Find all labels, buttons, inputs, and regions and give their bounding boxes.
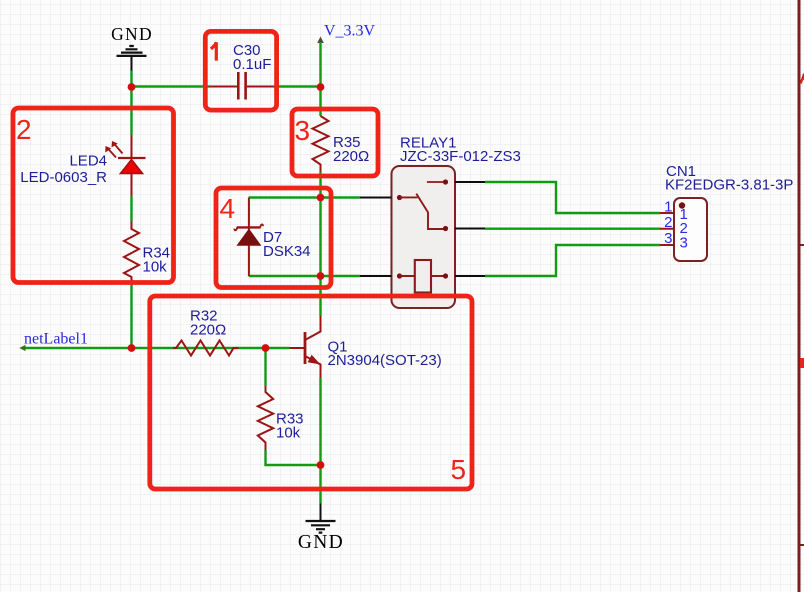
svg-text:0.1uF: 0.1uF	[233, 56, 271, 73]
svg-text:2N3904(SOT-23): 2N3904(SOT-23)	[328, 352, 442, 369]
annotation box 5	[150, 296, 472, 489]
wire netLabel1 row	[22, 347, 290, 349]
svg-text:KF2EDGR-3.81-3P: KF2EDGR-3.81-3P	[665, 177, 793, 194]
wire relay common to CN1 pin2	[485, 227, 660, 229]
wire end arrow	[19, 345, 25, 351]
svg-text:V_3.3V: V_3.3V	[324, 23, 376, 40]
RELAY1 NC contact	[427, 181, 445, 183]
D7 cathode lead	[248, 198, 250, 230]
resistor R34	[124, 222, 170, 285]
R33 zigzag body	[258, 386, 273, 450]
svg-text:LED-0603_R: LED-0603_R	[20, 169, 107, 186]
annotation box 1	[205, 31, 276, 110]
ground GND (top)	[111, 24, 153, 71]
resistor R33	[258, 386, 304, 450]
D7 anode lead	[248, 245, 250, 276]
wire LED to R34	[130, 196, 132, 222]
svg-text:2: 2	[16, 114, 32, 145]
svg-text:220Ω: 220Ω	[190, 322, 226, 339]
annotation box 4	[216, 188, 331, 288]
transistor Q1	[290, 316, 442, 379]
node F junction	[317, 194, 325, 202]
wire D7 top rail	[249, 196, 360, 198]
svg-text:10k: 10k	[276, 425, 301, 442]
wire node D to ground	[319, 465, 321, 504]
R34 zigzag body	[124, 222, 139, 285]
annotation number 1	[211, 42, 216, 60]
wire GND stem to node A	[130, 71, 132, 87]
svg-text:220Ω: 220Ω	[333, 148, 369, 165]
node E junction	[317, 272, 325, 280]
LED4 emission arrows	[107, 143, 123, 158]
Q1 collector	[305, 316, 321, 341]
svg-text:3: 3	[680, 235, 688, 252]
CN1 pin-1 marker dot	[679, 202, 685, 208]
wire relay coil to CN1 pin3	[485, 245, 660, 276]
R35 zigzag body	[313, 116, 329, 172]
sheet border (right edge)	[799, 0, 804, 592]
diode D7	[234, 198, 310, 277]
node B junction	[317, 83, 325, 91]
Q1 base bar	[304, 332, 307, 364]
C30 plates	[238, 72, 245, 100]
wire Q1 emitter down to node D	[319, 378, 321, 465]
Q1 emitter	[305, 356, 321, 378]
wire node F to node E	[319, 198, 321, 277]
RELAY1 body	[392, 166, 456, 308]
svg-text:2: 2	[664, 214, 672, 231]
svg-text:DSK34: DSK34	[263, 243, 311, 260]
wire Q1 collector up to node E	[319, 276, 321, 316]
svg-text:1: 1	[664, 199, 672, 216]
wire node C down to R33	[264, 348, 266, 386]
wire R33 bottom to node D	[266, 450, 321, 465]
node C junction	[262, 344, 270, 352]
svg-text:4: 4	[220, 193, 236, 224]
LED4 triangle	[121, 160, 143, 174]
wire node B down to R35	[319, 87, 321, 117]
svg-text:GND: GND	[111, 24, 153, 44]
svg-text:3: 3	[664, 230, 672, 247]
svg-text:GND: GND	[298, 532, 344, 553]
D7 schottky cathode bar	[237, 226, 261, 228]
annotation box 2	[13, 108, 174, 283]
connector CN1	[660, 163, 793, 261]
node D junction	[317, 461, 325, 469]
netLabel1 junction	[128, 344, 136, 352]
svg-text:netLabel1: netLabel1	[24, 331, 88, 348]
wire D7 bottom rail	[249, 275, 360, 277]
relay RELAY1	[360, 135, 521, 309]
power port V_3.3V	[317, 23, 375, 87]
RELAY1 switch arm	[397, 195, 402, 200]
node A junction	[128, 83, 136, 91]
Q1 base lead	[290, 347, 306, 349]
svg-text:JZC-33F-012-ZS3: JZC-33F-012-ZS3	[400, 148, 521, 165]
wire node A down to LED	[130, 87, 132, 136]
svg-text:5: 5	[451, 454, 467, 485]
resistor R35	[313, 116, 370, 172]
wire R35 bottom to node F	[319, 172, 321, 198]
wire R34 down to netLabel1 row	[130, 284, 132, 348]
R32 zigzag body	[173, 341, 239, 356]
wire C30 to node B	[274, 85, 321, 87]
D7 triangle	[237, 229, 260, 245]
CN1 pins	[660, 213, 674, 245]
CN1 body	[674, 198, 707, 261]
LED4 anode lead	[131, 174, 133, 196]
RELAY1 coil	[415, 260, 431, 293]
Q1 emitter arrow	[308, 355, 321, 365]
svg-text:LED4: LED4	[69, 153, 107, 170]
capacitor C30	[209, 42, 274, 100]
resistor R32	[173, 308, 239, 356]
LED4 cathode bar	[118, 157, 146, 159]
ground GND (bottom)	[298, 504, 344, 554]
LED LED4	[20, 135, 145, 196]
LED4 cathode lead	[131, 135, 133, 158]
wire relay NC to CN1 pin1	[485, 182, 660, 213]
RELAY1 pins	[360, 182, 485, 276]
svg-text:3: 3	[295, 115, 311, 146]
annotation box 3	[292, 109, 378, 176]
wire top rail left (node A to C30)	[132, 85, 210, 87]
C30 leads	[209, 86, 274, 88]
svg-text:10k: 10k	[143, 259, 168, 276]
